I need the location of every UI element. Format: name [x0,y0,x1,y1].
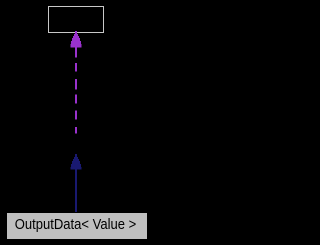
template-relation dashed edge (darkorchid), arrowhead pointing up at top box [71,31,82,134]
arrowhead tip stub [75,154,77,157]
arrowhead staircase [74,157,78,159]
solid edge line [75,169,77,213]
dashed edge line [75,47,77,134]
arrowhead tip stub [75,31,77,34]
inheritance edge (midnightblue), arrowhead pointing up [71,154,82,213]
node: OutputData< Value > (current class, grey filled) [6,212,148,240]
node: empty base/template class box (top) [48,6,104,33]
arrowhead staircase [74,34,78,36]
